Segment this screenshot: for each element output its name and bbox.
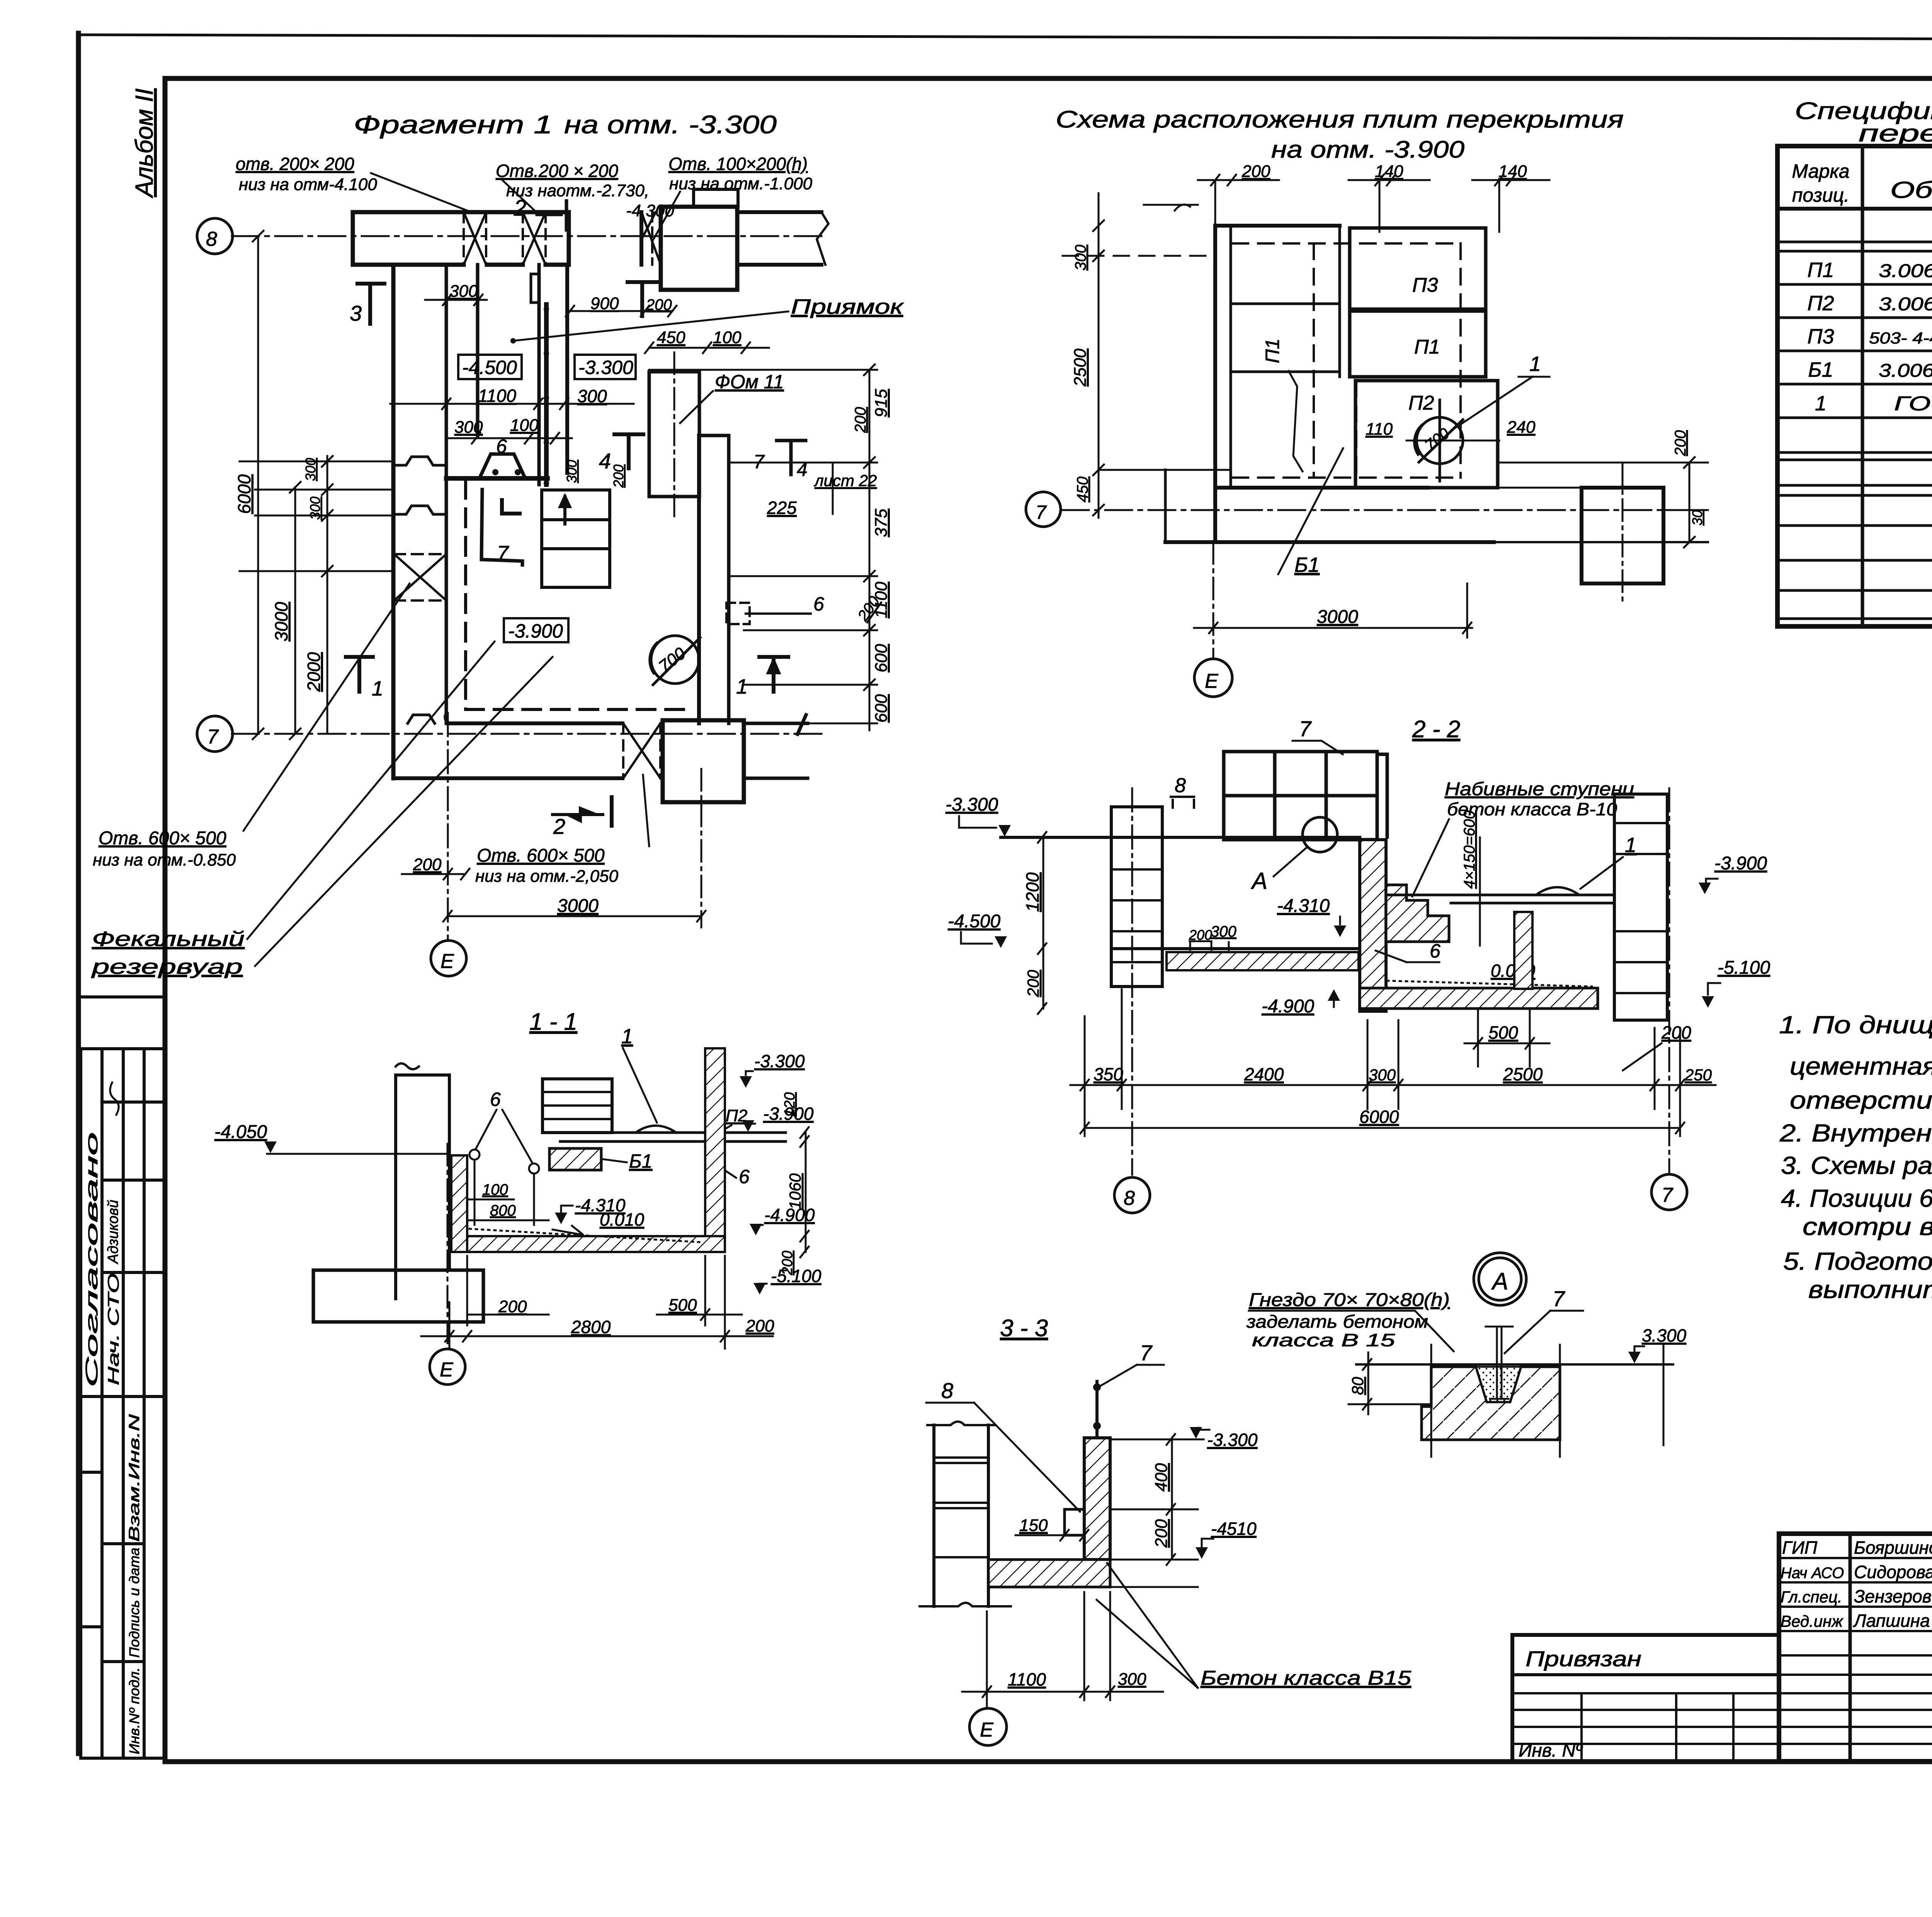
svg-text:Привязан: Привязан — [1526, 1647, 1641, 1671]
svg-text:Фекальный: Фекальный — [92, 927, 245, 951]
level -3.300 — [1110, 1439, 1204, 1441]
svg-text:смотри в спецификации на ли: смотри в спецификации на листе 22. — [1803, 1213, 1932, 1240]
hatched block with socket — [1422, 1367, 1560, 1440]
svg-text:Отв. 600× 500: Отв. 600× 500 — [477, 845, 605, 866]
svg-text:200: 200 — [1242, 162, 1270, 181]
svg-text:3.006.1-2/82 вып.2-2: 3.006.1-2/82 вып.2-2 — [1879, 294, 1932, 315]
svg-text:-4.500: -4.500 — [948, 911, 1000, 932]
svg-text:ГОСТ 3634-79: ГОСТ 3634-79 — [1894, 393, 1932, 415]
left dim chain — [240, 231, 393, 739]
svg-text:Обозначение: Обозначение — [1890, 177, 1932, 203]
svg-text:8: 8 — [206, 228, 217, 250]
svg-text:Зензеров: Зензеров — [1854, 1586, 1932, 1606]
svg-text:низ на отм.-2,050: низ на отм.-2,050 — [475, 867, 619, 886]
svg-text:E: E — [1205, 670, 1219, 692]
svg-text:2000: 2000 — [304, 652, 324, 692]
anchor bolt — [1095, 1381, 1099, 1458]
hole X 600x500 on left wall — [394, 554, 446, 600]
svg-text:3.300: 3.300 — [1642, 1325, 1687, 1345]
ground line — [1356, 1363, 1673, 1366]
left wall — [393, 265, 446, 778]
svg-text:250: 250 — [1684, 1066, 1712, 1084]
svg-text:120: 120 — [782, 1092, 798, 1117]
svg-text:Бетон класса В15: Бетон класса В15 — [1201, 1667, 1412, 1689]
svg-text:3: 3 — [350, 301, 362, 325]
svg-text:на отм. -3.300: на отм. -3.300 — [564, 110, 777, 139]
svg-text:503- 4-46.87 КЖ4-П11g-8.1: 503- 4-46.87 КЖ4-П11g-8.1 — [1869, 329, 1932, 347]
svg-text:1 - 1: 1 - 1 — [529, 1009, 577, 1035]
svg-text:7: 7 — [207, 726, 219, 748]
floor edge below rooms — [446, 476, 548, 481]
svg-text:350: 350 — [1094, 1064, 1123, 1084]
small rect above pilaster — [694, 189, 738, 207]
svg-text:П1: П1 — [1262, 338, 1283, 363]
left wall — [396, 1063, 449, 1299]
svg-text:Взам.Инв.N: Взам.Инв.N — [126, 1414, 143, 1542]
svg-text:300: 300 — [1211, 923, 1236, 940]
svg-text:Вед.инж: Вед.инж — [1781, 1612, 1844, 1630]
svg-text:1: 1 — [621, 1025, 633, 1048]
tank left wall hatched — [451, 1155, 467, 1252]
svg-text:ГИП: ГИП — [1782, 1538, 1818, 1558]
steps nabivnye — [1386, 885, 1449, 942]
svg-text:перекрытия, к фрагменту 1: перекрытия, к фрагменту 1 — [1859, 120, 1932, 147]
svg-text:лист 22: лист 22 — [813, 471, 877, 490]
svg-text:Нач. СТО: Нач. СТО — [105, 1273, 122, 1385]
svg-text:низ на отм.-1.000: низ на отм.-1.000 — [669, 174, 813, 193]
svg-text:заделать бетоном: заделать бетоном — [1246, 1311, 1428, 1332]
svg-text:300: 300 — [1072, 245, 1089, 270]
svg-text:Б1: Б1 — [629, 1150, 652, 1172]
plan walls — [1100, 226, 1494, 542]
svg-text:6000: 6000 — [234, 474, 254, 514]
right dims — [1494, 457, 1708, 548]
svg-text:6: 6 — [739, 1166, 750, 1187]
svg-text:-3.300: -3.300 — [946, 794, 998, 815]
footing — [313, 1270, 483, 1322]
axis E — [447, 1144, 449, 1349]
svg-text:Инв.Nº подл.: Инв.Nº подл. — [126, 1667, 142, 1754]
left wall column — [1111, 807, 1162, 987]
svg-text:-3.900: -3.900 — [508, 620, 563, 642]
svg-text:П2: П2 — [1408, 392, 1434, 414]
right rotated dims — [800, 1127, 809, 1257]
bottom dim chain — [1070, 989, 1716, 1136]
svg-text:100: 100 — [510, 416, 539, 435]
svg-text:Отв.200 × 200: Отв.200 × 200 — [496, 161, 618, 181]
P2 slab — [560, 1126, 786, 1141]
svg-text:1: 1 — [1529, 352, 1541, 376]
svg-text:Гнездо 70× 70×80(h): Гнездо 70× 70×80(h) — [1249, 1290, 1450, 1310]
block pier — [543, 1079, 612, 1133]
svg-text:7: 7 — [1553, 1286, 1565, 1311]
screed slope dotted — [1387, 981, 1592, 987]
svg-text:Сидорова: Сидорова — [1854, 1562, 1932, 1582]
section cut 2 bottom — [553, 797, 612, 826]
svg-text:-5.100: -5.100 — [771, 1266, 821, 1286]
B1 beam hatched — [549, 1148, 601, 1170]
svg-text:2 - 2: 2 - 2 — [1412, 716, 1460, 743]
left dims — [1063, 193, 1215, 518]
svg-text:Б1: Б1 — [1294, 553, 1320, 577]
central hatched wall — [1360, 840, 1386, 1011]
svg-text:-4510: -4510 — [1211, 1519, 1257, 1539]
svg-text:П3: П3 — [1807, 325, 1834, 348]
slab -3.900 — [1386, 887, 1614, 903]
svg-text:4: 4 — [599, 449, 611, 473]
svg-text:-4.050: -4.050 — [214, 1122, 267, 1142]
svg-text:отв. 200× 200: отв. 200× 200 — [236, 154, 354, 174]
svg-text:1: 1 — [1815, 392, 1827, 415]
svg-text:Набивные ступени: Набивные ступени — [1445, 779, 1634, 799]
svg-text:резервуар: резервуар — [91, 955, 243, 978]
section cut 4 lower — [614, 434, 643, 468]
svg-text:6: 6 — [490, 1089, 501, 1110]
svg-text:240: 240 — [1507, 418, 1536, 437]
svg-text:200: 200 — [1661, 1022, 1691, 1043]
axis 7 — [1062, 509, 1708, 511]
bottom pilaster — [663, 720, 744, 802]
wall opening X 2 — [523, 212, 546, 265]
A mark circle — [1303, 817, 1337, 852]
svg-text:низ на отм.-0.850: низ на отм.-0.850 — [93, 850, 236, 869]
bottom slab hatched — [988, 1560, 1110, 1587]
svg-text:375: 375 — [872, 509, 891, 537]
svg-text:100: 100 — [482, 1181, 508, 1198]
tank right wall hatched — [705, 1048, 725, 1236]
small wall stub — [481, 490, 522, 565]
top right dashed pier — [641, 212, 661, 265]
svg-text:-4.900: -4.900 — [1262, 996, 1314, 1017]
svg-text:140: 140 — [1375, 162, 1403, 181]
slab P3 — [1350, 228, 1486, 309]
FOM11 foundation — [649, 372, 699, 497]
axis 7 vertical — [1668, 788, 1670, 1175]
svg-text:6: 6 — [813, 593, 824, 615]
svg-text:А: А — [1251, 868, 1267, 894]
section cut 4 (upper) — [628, 282, 657, 316]
joint lines left part — [1231, 304, 1340, 372]
svg-text:200: 200 — [498, 1297, 527, 1316]
right wall column — [1614, 794, 1667, 1020]
svg-text:А: А — [1491, 1268, 1508, 1295]
svg-text:4. Позиции 6...8, замаркирова: 4. Позиции 6...8, замаркированные на дан… — [1781, 1184, 1932, 1212]
svg-text:Инв. Nº: Инв. Nº — [1519, 1740, 1583, 1761]
svg-text:E: E — [980, 1719, 994, 1741]
svg-text:3. Схемы расположения блоков: 3. Схемы расположения блоков смотреть на… — [1781, 1152, 1932, 1179]
level -3.300 framed — [575, 355, 636, 379]
svg-text:3 - 3: 3 - 3 — [1000, 1315, 1048, 1342]
svg-text:выполнить из бетона класса: выполнить из бетона класса В3.5 толщиной… — [1808, 1276, 1932, 1303]
dim 400 200 — [1110, 1434, 1198, 1587]
wall opening X 1 — [464, 212, 486, 265]
band right extension — [1494, 488, 1708, 510]
axis E vertical — [448, 718, 940, 719]
svg-text:Альбом II: Альбом II — [130, 88, 158, 199]
svg-text:4×150=600: 4×150=600 — [1461, 811, 1478, 889]
svg-text:-4.500: -4.500 — [462, 357, 517, 378]
svg-text:-4.310: -4.310 — [575, 1195, 626, 1215]
axis 8 vertical — [1131, 788, 1133, 1175]
right tank wall hatched — [1514, 912, 1532, 989]
ext verticals — [1431, 1345, 1663, 1457]
bottom wall band — [394, 713, 622, 778]
svg-text:1100: 1100 — [478, 386, 516, 406]
svg-text:Гл.спец.: Гл.спец. — [1781, 1588, 1842, 1606]
svg-text:Отв. 600× 500: Отв. 600× 500 — [99, 828, 226, 849]
axis E — [986, 1611, 988, 1708]
svg-text:6000: 6000 — [1359, 1107, 1399, 1127]
svg-text:1: 1 — [372, 677, 383, 700]
axis 8 circle — [197, 218, 233, 254]
svg-text:7: 7 — [1662, 1184, 1673, 1206]
screed dotted slope — [469, 1229, 703, 1242]
svg-text:3.006.1-2/82 вып. 2-2: 3.006.1-2/82 вып. 2-2 — [1879, 361, 1932, 381]
svg-text:Фрагмент 1: Фрагмент 1 — [354, 110, 553, 139]
svg-text:80: 80 — [1349, 1377, 1367, 1395]
svg-text:7: 7 — [1299, 716, 1312, 741]
svg-text:300: 300 — [303, 458, 318, 481]
svg-text:100: 100 — [713, 328, 742, 347]
svg-text:1. По днищу фекального резе: 1. По днищу фекального резервуара устраи… — [1779, 1011, 1932, 1039]
svg-text:Лапшина: Лапшина — [1853, 1611, 1930, 1631]
svg-text:450: 450 — [657, 328, 685, 347]
axis 7 line — [232, 733, 827, 735]
svg-text:300: 300 — [307, 497, 323, 520]
right dim chain — [645, 342, 877, 730]
bottom opening X — [623, 723, 660, 778]
circle A — [1474, 1253, 1526, 1305]
svg-text:3000: 3000 — [271, 602, 291, 641]
svg-text:30: 30 — [1689, 510, 1705, 526]
svg-text:3.006.1-2/82 вып.1-2: 3.006.1-2/82 вып.1-2 — [1879, 261, 1932, 281]
svg-text:500: 500 — [1488, 1022, 1518, 1043]
wall stub right of pilaster — [737, 212, 828, 265]
svg-text:450: 450 — [1074, 476, 1091, 502]
svg-text:200: 200 — [1152, 1519, 1171, 1548]
right pilaster — [1582, 488, 1663, 583]
svg-text:200: 200 — [1189, 927, 1212, 943]
axis circles — [1114, 1177, 1150, 1213]
svg-text:низ на отм-4.100: низ на отм-4.100 — [239, 175, 377, 194]
svg-text:П3: П3 — [1412, 274, 1438, 296]
svg-text:7: 7 — [1036, 502, 1047, 523]
svg-text:3000: 3000 — [1317, 607, 1358, 627]
top wall band — [353, 212, 569, 265]
svg-text:цементная стяжка М100 с у: цементная стяжка М100 с уклоном 0.010 в … — [1790, 1052, 1932, 1080]
svg-text:200: 200 — [1672, 430, 1689, 456]
svg-text:915: 915 — [872, 389, 891, 417]
central hatched wall — [1084, 1438, 1110, 1560]
svg-text:300: 300 — [449, 282, 478, 301]
section cut 1 marks — [346, 657, 373, 692]
dims 1200 200 left — [1038, 832, 1046, 1014]
svg-text:200: 200 — [611, 464, 626, 488]
svg-text:2: 2 — [553, 814, 565, 839]
svg-text:-3.900: -3.900 — [1714, 853, 1767, 874]
svg-text:7: 7 — [1140, 1340, 1153, 1365]
dim 80 — [1349, 1352, 1431, 1414]
svg-text:отверстий.: отверстий. — [1790, 1086, 1932, 1114]
svg-text:200: 200 — [745, 1317, 774, 1335]
left sidebar boxes — [81, 997, 165, 1758]
stairs block — [542, 490, 610, 587]
svg-text:П1: П1 — [1807, 259, 1834, 282]
dashed interior — [1233, 243, 1461, 478]
svg-text:150: 150 — [1019, 1516, 1048, 1535]
top right pilaster — [661, 207, 737, 290]
svg-text:200: 200 — [1024, 970, 1042, 997]
slab P2 — [1355, 381, 1498, 488]
svg-text:-3.300: -3.300 — [1207, 1430, 1258, 1450]
svg-text:600: 600 — [872, 644, 891, 672]
svg-text:Приямок: Приямок — [791, 295, 904, 318]
svg-text:Бояршинов: Бояршинов — [1854, 1538, 1932, 1558]
svg-text:800: 800 — [490, 1202, 516, 1219]
svg-text:6: 6 — [1430, 940, 1440, 962]
svg-text:-3.300: -3.300 — [754, 1051, 805, 1071]
svg-text:200: 200 — [413, 855, 442, 874]
svg-text:3000: 3000 — [557, 896, 599, 916]
floor line — [1001, 836, 1360, 839]
left block wall — [920, 1422, 1011, 1606]
svg-text:Марка: Марка — [1792, 160, 1849, 182]
svg-text:2500: 2500 — [1071, 349, 1090, 387]
priamok room walls — [478, 265, 567, 485]
svg-text:8: 8 — [941, 1378, 953, 1403]
block joint bumps on left wall — [393, 457, 446, 723]
axis E circle — [431, 941, 466, 976]
svg-text:низ наотм.-2.730,: низ наотм.-2.730, — [506, 181, 649, 200]
svg-text:Схема расположения плит перекр: Схема расположения плит перекрытия — [1056, 106, 1624, 133]
svg-text:Согласовано: Согласовано — [82, 1132, 101, 1387]
svg-text:110: 110 — [1366, 420, 1393, 439]
svg-text:2500: 2500 — [1503, 1064, 1543, 1084]
level -3.900 framed — [504, 618, 568, 642]
socket concrete dots — [1476, 1367, 1521, 1402]
svg-text:400: 400 — [1152, 1463, 1171, 1492]
svg-text:класса В 15: класса В 15 — [1252, 1330, 1395, 1350]
axis 8 line — [232, 235, 827, 237]
luke circle 700 — [650, 636, 700, 685]
svg-text:Б1: Б1 — [1808, 358, 1833, 381]
svg-text:300: 300 — [1118, 1670, 1146, 1689]
svg-text:Нач АСО: Нач АСО — [1781, 1565, 1844, 1582]
axis E — [1213, 542, 1214, 659]
svg-text:2400: 2400 — [1244, 1064, 1284, 1084]
svg-text:1: 1 — [736, 675, 748, 698]
svg-text:200: 200 — [852, 407, 869, 433]
axis 7 circle — [197, 716, 233, 752]
svg-text:1200: 1200 — [1022, 872, 1043, 912]
reservoir dashed outline — [466, 480, 692, 709]
svg-text:на отм. -3.900: на отм. -3.900 — [1271, 136, 1464, 163]
svg-text:Адзиковй: Адзиковй — [105, 1200, 121, 1264]
svg-text:E: E — [440, 1359, 454, 1381]
svg-text:ФОм 11: ФОм 11 — [715, 371, 784, 393]
svg-text:-5.100: -5.100 — [1718, 958, 1770, 978]
svg-text:1100: 1100 — [1008, 1669, 1046, 1689]
tank bottom slab — [1360, 988, 1598, 1009]
svg-text:225: 225 — [767, 498, 797, 518]
svg-text:500: 500 — [668, 1296, 697, 1315]
svg-text:8: 8 — [1175, 774, 1186, 797]
svg-text:300: 300 — [1369, 1066, 1396, 1084]
tank bottom slab hatched — [467, 1236, 725, 1252]
svg-text:300: 300 — [564, 460, 580, 483]
svg-text:Подпись и дата: Подпись и дата — [126, 1548, 142, 1658]
svg-text:-4.300: -4.300 — [626, 201, 674, 220]
trapezoid element — [480, 454, 524, 476]
band stub right — [744, 715, 808, 778]
svg-text:200: 200 — [779, 1251, 796, 1276]
level -4.500 framed — [458, 355, 522, 379]
svg-text:2800: 2800 — [571, 1317, 611, 1337]
Г bracket — [502, 500, 520, 514]
anchor bolt — [1486, 1327, 1513, 1399]
svg-text:позиц.: позиц. — [1792, 184, 1849, 206]
svg-text:Отв. 100×200(h): Отв. 100×200(h) — [668, 154, 808, 174]
svg-text:E: E — [440, 950, 454, 973]
svg-text:600: 600 — [872, 694, 891, 723]
section cut 3 mark — [357, 284, 384, 324]
svg-text:5. Подготовку под фекальный: 5. Подготовку под фекальный резервуар и … — [1783, 1247, 1932, 1275]
svg-text:1060: 1060 — [786, 1173, 804, 1209]
svg-text:-4.310: -4.310 — [1277, 896, 1330, 916]
priamok floor slab hatched — [1111, 947, 1360, 950]
luke circle on P2 — [1406, 400, 1499, 481]
svg-text:2. Внутренние поверхности ре: 2. Внутренние поверхности резервуара жел… — [1779, 1119, 1932, 1147]
right side wall of room — [699, 435, 729, 723]
svg-text:-3.300: -3.300 — [578, 357, 633, 378]
slab P1 — [1350, 311, 1486, 377]
block wall above — [1224, 752, 1387, 840]
svg-text:П2: П2 — [1807, 292, 1834, 315]
notch 150 — [1065, 1509, 1084, 1535]
svg-text:8: 8 — [1124, 1187, 1135, 1209]
svg-text:П1: П1 — [1414, 336, 1440, 358]
